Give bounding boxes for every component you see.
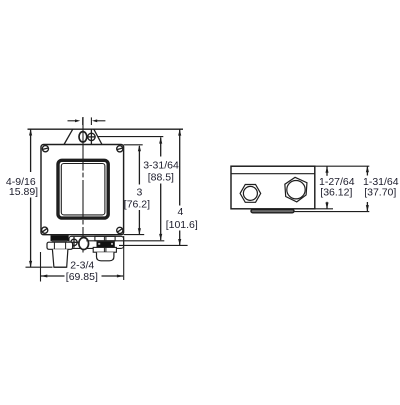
svg-text:15.89]: 15.89] [9, 186, 38, 198]
svg-text:[88.5]: [88.5] [148, 172, 174, 184]
svg-text:3-31/64: 3-31/64 [143, 159, 179, 171]
svg-text:2-3/4: 2-3/4 [70, 260, 94, 272]
svg-text:3: 3 [137, 187, 143, 199]
svg-text:[76.2]: [76.2] [124, 198, 150, 210]
svg-text:4: 4 [178, 206, 184, 218]
svg-text:[37.70]: [37.70] [364, 187, 396, 199]
svg-text:[36.12]: [36.12] [320, 187, 352, 199]
svg-text:[101.6]: [101.6] [166, 219, 198, 231]
svg-text:[69.85]: [69.85] [66, 271, 98, 283]
